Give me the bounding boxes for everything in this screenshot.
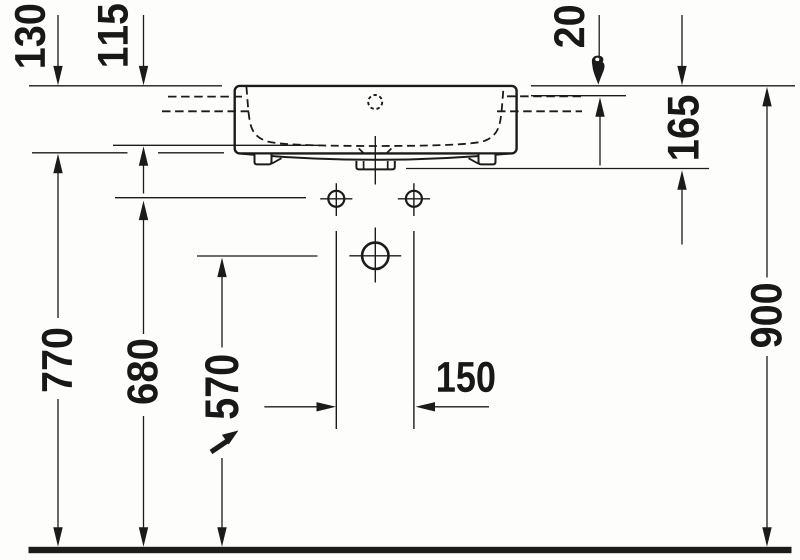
drain flange box (356, 161, 394, 170)
dimension 770 arrow down at floor (53, 527, 62, 547)
tap hole dashed circle (368, 95, 382, 109)
dimension 130 arrow down (53, 66, 62, 86)
drain center line (374, 136, 376, 283)
left mounting foot cap (255, 154, 272, 165)
drain flange inner tick right (387, 161, 389, 169)
left fixing hole (328, 191, 344, 207)
dimension 20 curved arrow (592, 56, 605, 85)
left fixing hole cross (320, 198, 352, 200)
dimension 20 leader line (598, 15, 600, 57)
washbasin inner bowl hidden outline (246, 87, 503, 147)
dimension 115 arrow down (139, 66, 148, 86)
dimension 130 extension line (57, 15, 59, 68)
dimension 150 right arrow left-pointing (416, 402, 436, 411)
washbasin underside silhouette curve (241, 154, 509, 160)
label 20 (554, 6, 585, 47)
label 770 (42, 329, 73, 392)
dimension 900 arrow up at rim (762, 87, 771, 107)
dimension 20 arrow up (595, 97, 604, 117)
dimension 570 arrow up at drain line (217, 258, 226, 278)
dimension 770 line lower (57, 399, 59, 530)
wall reference line right (rim level) (531, 85, 795, 87)
dimension 165 arrow up (677, 170, 686, 190)
wall reference line left (rim level) (29, 85, 222, 87)
drain recess mark left (359, 149, 371, 154)
hidden dashed line right lower (497, 110, 582, 112)
right mounting foot cap (479, 154, 496, 165)
hidden dashed line left upper (168, 96, 242, 98)
label 150 (438, 362, 495, 393)
hidden dashed line right upper (507, 95, 585, 97)
fixing holes reference line (680 level) (115, 197, 306, 199)
dimension 570 line lower (221, 458, 223, 530)
hidden dashed line left lower (162, 110, 250, 112)
right fixing hole cross (398, 198, 430, 200)
right foot flare (469, 158, 479, 163)
drain recess mark right (379, 149, 391, 154)
floor line (29, 547, 792, 553)
right fixing hole (406, 191, 422, 207)
dimension 680 line lower (143, 416, 145, 530)
label 165 (667, 96, 699, 159)
dimension 900 arrow down at floor (762, 527, 771, 547)
dimension 570 oblique arrow (222, 431, 239, 445)
drain flange inner tick left (363, 161, 365, 169)
dimension 115 extension line (143, 15, 145, 68)
label 130 (15, 5, 46, 67)
apron lower reference line right (165 level) (406, 168, 709, 170)
dimension 165 arrow down (677, 66, 686, 86)
label 900 (751, 284, 782, 347)
label 570 (205, 356, 239, 419)
left foot flare (272, 158, 282, 163)
dimension 680 arrow down at floor (139, 527, 148, 547)
dimension 900 line lower (766, 356, 768, 530)
drain height reference line (570 level) (197, 255, 318, 257)
washbasin body outline (235, 86, 517, 153)
label 115 (98, 4, 128, 66)
label 680 (127, 340, 158, 404)
dimension 165 extension line top (681, 15, 683, 67)
basin bottom reference line (115/680 level) (113, 144, 322, 146)
overflow level solid line right (531, 95, 626, 97)
dimension 680 arrow up at holes line (139, 201, 148, 221)
drain pipe circle (362, 243, 388, 269)
right hole center line (413, 183, 415, 429)
dimension 570 arrow down at floor (217, 527, 226, 547)
dimension 680 arrow up at basin (139, 146, 148, 166)
dimension 150 left arrow right-pointing (264, 406, 319, 408)
dimension 770 arrow up (53, 154, 62, 174)
drain pipe cross line (349, 255, 401, 257)
left hole center line (335, 183, 337, 429)
basin underside reference line (130/770 level) (32, 152, 224, 154)
